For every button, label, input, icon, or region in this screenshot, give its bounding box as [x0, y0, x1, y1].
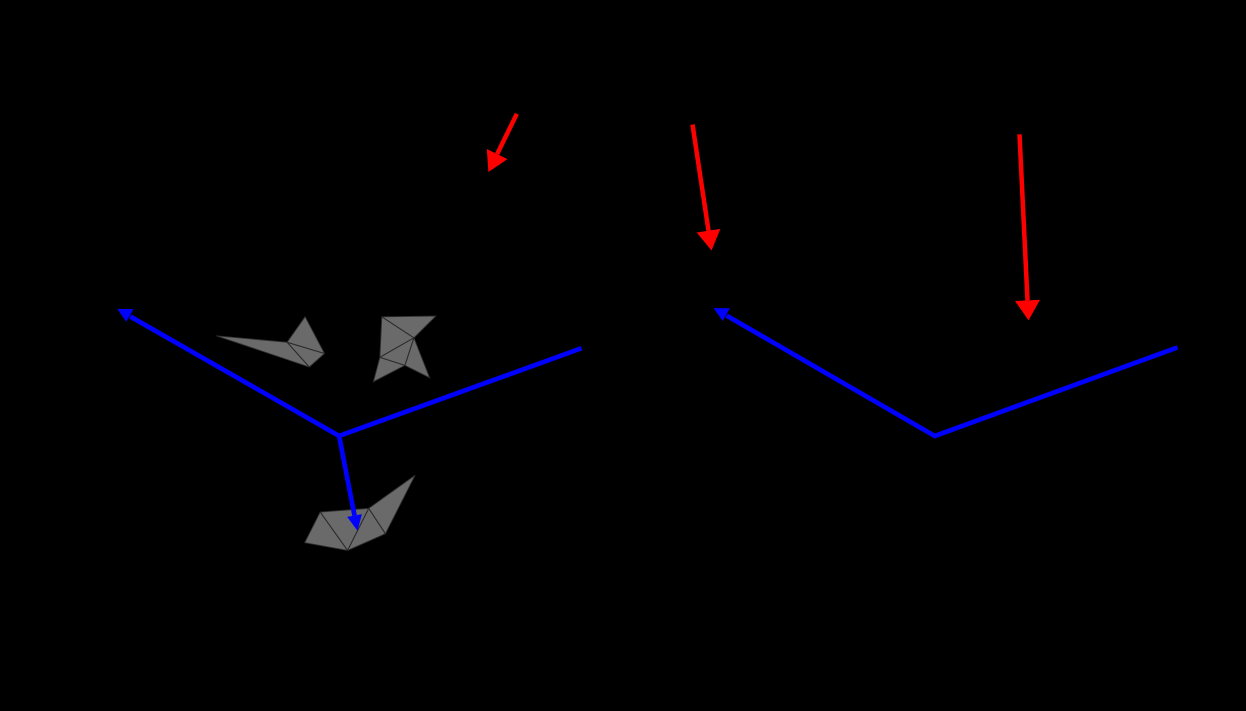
right blue axes: up-left arrowhead — [714, 308, 730, 321]
gray origami bird 1: fold edges — [216, 317, 324, 367]
gray origami bird 3: fold edges — [305, 475, 415, 550]
left blue axes: down branch with arrowhead — [339, 436, 362, 531]
gray origami bird 3 (bottom, under blue down arrow): fill — [305, 475, 415, 550]
red vector arrow 1 (upper middle-left, pointing down-left) — [487, 114, 517, 172]
gray origami bird 2: fold edges — [373, 316, 435, 382]
left blue axes polyline (arrow-base to vertex to right end) — [130, 316, 581, 436]
gray origami bird 2 (upper-middle): fill — [373, 316, 435, 382]
gray origami bird 1 (upper-left): fill — [216, 317, 324, 367]
left blue axes: up-left arrowhead — [117, 309, 133, 322]
red vector arrow 2 (middle, pointing down) — [693, 125, 721, 251]
right blue axes polyline (arrow-base to vertex to right end) — [727, 316, 1178, 436]
red vector arrow 3 (right, pointing down) — [1015, 134, 1040, 320]
